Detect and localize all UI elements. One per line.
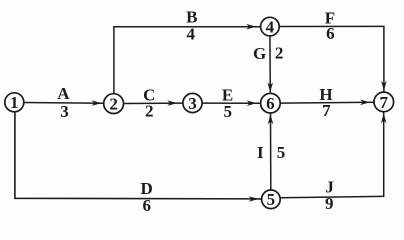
wire: arrow I from node 5 up to node 6 [268, 113, 274, 190]
wire: arrow C from node 2 to node 3 [124, 100, 183, 106]
node 5 [262, 190, 281, 209]
svg-text:3: 3 [188, 94, 197, 113]
wire: arrow A from node 1 to node 2 [24, 100, 104, 106]
svg-text:7: 7 [322, 101, 331, 120]
svg-text:7: 7 [380, 93, 389, 112]
node 6 [261, 93, 281, 113]
svg-text:6: 6 [143, 196, 152, 215]
svg-text:2: 2 [109, 95, 118, 114]
svg-text:5: 5 [277, 143, 286, 162]
svg-text:5: 5 [224, 102, 233, 121]
wire: arrow H from node 6 to node 7 [281, 100, 375, 106]
svg-text:3: 3 [60, 102, 69, 121]
wire: arrow G from node 4 down to node 6 [267, 36, 273, 93]
svg-text:I: I [257, 143, 264, 162]
wire: arrow D from node 1 down and right to node 5 [15, 112, 262, 202]
svg-text:5: 5 [267, 190, 276, 209]
svg-text:6: 6 [326, 24, 335, 43]
node 7 [374, 92, 394, 112]
svg-text:4: 4 [266, 18, 275, 37]
svg-text:9: 9 [325, 194, 334, 213]
svg-text:6: 6 [266, 94, 275, 113]
node 4 [261, 17, 280, 36]
node 3 [183, 93, 202, 113]
wire: arrow B from node 2 up and right to node 4 [114, 24, 261, 94]
wire: arrow F from node 4 right and down to node 7 [280, 26, 387, 92]
node 2 [104, 94, 124, 114]
wire: arrow E from node 3 to node 6 [202, 100, 260, 106]
node 1 [5, 93, 24, 112]
svg-text:G: G [253, 44, 266, 63]
svg-text:A: A [57, 84, 70, 103]
svg-text:1: 1 [10, 93, 19, 112]
wire: arrow J from node 5 right and up to node 7 [281, 112, 387, 198]
svg-text:2: 2 [145, 101, 154, 120]
svg-text:4: 4 [187, 24, 196, 43]
svg-text:2: 2 [275, 44, 284, 63]
